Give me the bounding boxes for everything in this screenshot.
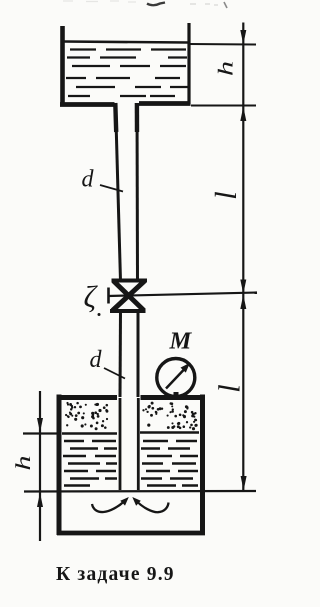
label h (upper tank head, rotated): [214, 61, 237, 76]
arrowhead up at tank bottom level: [240, 107, 246, 122]
manometer dial circle: [157, 359, 195, 397]
manometer needle: [166, 370, 184, 389]
upper tank bottom right segment: [139, 101, 191, 106]
svg-text:h: h: [214, 61, 237, 76]
lower pipe wall right (valve to lower tank): [137, 310, 140, 397]
lower tank liquid dashes: [63, 441, 198, 486]
valve stem tick left: [107, 288, 110, 304]
svg-text:l: l: [208, 191, 243, 200]
arrowhead down at lower surface: [37, 418, 43, 433]
right dimension line: [242, 23, 244, 491]
flow arrow left: [92, 501, 125, 512]
pipe wall right inside lower tank: [137, 398, 140, 490]
valve horizontal line through center to dimension line: [108, 293, 257, 297]
valve body (hourglass X with bars): [112, 279, 148, 283]
svg-text:M: M: [169, 328, 193, 355]
pipe wall left inside lower tank: [119, 398, 122, 490]
upper pipe wall right: [136, 103, 140, 281]
lower tank left wall: [57, 395, 62, 536]
pipe outlet level line (full width): [24, 490, 256, 493]
upper pipe wall left: [116, 103, 121, 281]
gas space stipple dots: [65, 402, 198, 431]
lower tank bottom: [57, 531, 205, 536]
label h (lower tank head, rotated): [11, 455, 34, 470]
lower tank liquid surface left: [62, 432, 117, 435]
tank bottom level extension line to dimension: [191, 105, 256, 107]
svg-text:h: h: [11, 455, 34, 470]
manometer stem: [174, 392, 179, 400]
arrowhead down at outlet level: [241, 476, 247, 491]
svg-text:d: d: [82, 167, 95, 193]
arrowhead down at surface level: [240, 30, 246, 45]
leader line for lower d: [104, 368, 125, 379]
left dimension line: [39, 391, 41, 541]
lower tank lid right segment: [141, 395, 206, 400]
svg-text:l: l: [212, 384, 247, 393]
upper tank liquid surface: [64, 42, 188, 43]
faint cut-off text remnant at top: [63, 1, 227, 8]
upper tank bottom left segment: [60, 102, 115, 107]
lower pipe wall left (valve to lower tank): [119, 310, 123, 397]
upper tank left wall: [60, 26, 65, 106]
surface level extension line to dimension: [189, 43, 256, 46]
upper tank right wall: [187, 23, 190, 104]
arrowheads at valve level: [240, 280, 246, 295]
leader line for upper d: [100, 185, 123, 192]
flow arrow right: [137, 501, 169, 512]
upper tank liquid dashes: [66, 50, 188, 97]
lower tank lid left segment: [57, 395, 118, 400]
lower tank liquid surface right: [140, 431, 199, 434]
left dim tick at lower liquid surface: [23, 432, 57, 434]
svg-text:ζ: ζ: [84, 279, 99, 314]
lower tank right wall: [200, 395, 205, 536]
arrowhead up at outlet level: [37, 493, 43, 508]
svg-text:К задаче 9.9: К задаче 9.9: [56, 564, 175, 585]
svg-text:d: d: [90, 347, 103, 373]
